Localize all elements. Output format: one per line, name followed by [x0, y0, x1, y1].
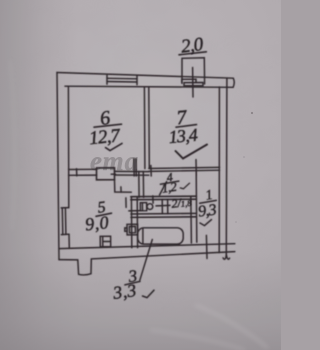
wall: bottom outer face with protrusion [59, 252, 235, 275]
bathtub inner line [142, 228, 144, 244]
wall: room 7 south [149, 167, 220, 171]
window W2 left wall pane lines [62, 209, 66, 235]
junction tick [129, 210, 140, 212]
door jamb tick room 7 [195, 160, 197, 176]
wall: right outer squiggle end [223, 254, 230, 259]
dust specks [251, 112, 253, 114]
toilet tank [140, 203, 146, 211]
vent box notch [111, 173, 115, 175]
wall: top end cap right [233, 78, 234, 87]
underline label 2,0 [179, 52, 206, 55]
toilet bowl [147, 204, 153, 210]
window W1 top wall pane lines [107, 78, 137, 82]
wall: left outer face [57, 73, 59, 260]
sink [127, 224, 138, 235]
wall: right inner face [218, 87, 220, 253]
crease highlights [10, 60, 268, 350]
window W2 end ticks [61, 208, 69, 235]
wall: interior wall right segment [114, 171, 148, 175]
wall: toilet/room2 divider [162, 200, 168, 214]
underline label 3 [125, 281, 140, 285]
wall: divider rooms 6/7 [144, 87, 149, 169]
wall: bottom top face [59, 244, 235, 249]
svg-text:9,3: 9,3 [197, 202, 217, 221]
underline label 6 [94, 124, 122, 127]
wall below vent box [115, 180, 132, 193]
wall: right outer face [225, 78, 228, 254]
door leaf room 5 [125, 198, 127, 208]
svg-text:12,7: 12,7 [88, 125, 122, 149]
wall: top outer face [57, 73, 233, 79]
balcony sill rects [182, 79, 203, 86]
check room 3 [143, 290, 155, 297]
bathtub [138, 228, 184, 244]
svg-text:13,4: 13,4 [168, 125, 199, 147]
door leaf hallway [160, 182, 167, 195]
svg-text:2,0: 2,0 [180, 34, 205, 58]
check room 7 [176, 145, 208, 159]
wall: room5 east / bathroom west [131, 197, 137, 248]
wall: room2 east [190, 196, 193, 243]
door jamb ticks room 6 [134, 159, 136, 176]
check room 1 [200, 220, 212, 226]
entrance door tick [205, 235, 208, 258]
tick on divider [156, 204, 170, 207]
balcony door axis [192, 68, 194, 98]
wall: toilet row south [131, 213, 196, 217]
wall: top inner face [65, 86, 233, 87]
vent box on interior wall [97, 168, 115, 180]
wall: left inner face upper [67, 86, 69, 207]
svg-text:3,3: 3,3 [111, 280, 138, 303]
window W1 end ticks [107, 75, 137, 84]
check room 6 [106, 143, 123, 150]
underline label 5 [96, 213, 112, 216]
underline label 7 [176, 125, 197, 128]
stove [100, 236, 111, 247]
door jamb room 5 small [120, 187, 122, 192]
wall: hallway 4 west [139, 172, 144, 198]
check room 4 [180, 183, 189, 189]
wall: corridor 1 west [195, 172, 198, 243]
door jamb tick near divider [150, 166, 152, 177]
underline label 1 [200, 200, 217, 203]
wall: interior wall left segment (room 6 / room 5) [69, 169, 97, 175]
door jamb tick room 5 west [76, 169, 78, 176]
toilet door jamb tick [152, 196, 154, 203]
leader line room 3 [140, 240, 153, 281]
wall: bath block north [131, 196, 197, 200]
svg-text:9,0: 9,0 [84, 212, 110, 234]
underline label 4 [160, 181, 178, 184]
balcony outline [182, 58, 205, 84]
wall: left inner face lower [68, 235, 70, 249]
